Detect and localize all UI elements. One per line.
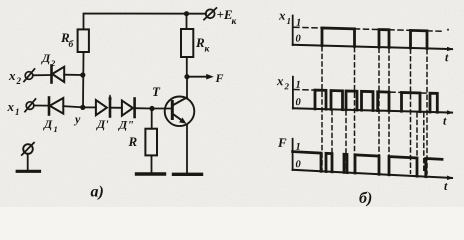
label Rк — [195, 35, 211, 55]
ground bar common — [17, 170, 39, 173]
svg-text:1: 1 — [15, 107, 20, 117]
ground bar under R — [137, 172, 165, 175]
label T — [152, 84, 161, 99]
svg-text:0: 0 — [296, 97, 302, 108]
svg-text:у: у — [73, 112, 81, 126]
wire diode Д2 to bus — [64, 74, 83, 76]
F axis vertical — [292, 139, 294, 170]
resistor Rб — [78, 29, 89, 52]
wire resistor R to ground — [151, 155, 153, 173]
svg-text:0: 0 — [296, 159, 302, 170]
svg-text:2: 2 — [16, 76, 22, 86]
label Д'' — [118, 118, 134, 132]
x2 waveform — [315, 90, 437, 112]
label x2 — [8, 68, 22, 86]
svg-text:F: F — [277, 135, 287, 151]
svg-text:x: x — [276, 73, 284, 88]
junction base node — [149, 106, 154, 111]
svg-text:1: 1 — [54, 124, 58, 134]
dashed guide lines x2 transitions — [332, 111, 424, 174]
svg-text:T: T — [152, 84, 161, 99]
diode Д'' — [122, 99, 135, 118]
wire diode Д1 to node У — [63, 106, 83, 107]
diode Д1 — [49, 98, 63, 115]
transistor T collector stroke — [172, 98, 187, 106]
junction x2 row — [80, 72, 85, 77]
x1 axis t — [293, 45, 452, 49]
transistor T emitter stroke — [172, 114, 183, 122]
wire common terminal to ground — [27, 154, 29, 170]
svg-text:Д: Д — [41, 51, 51, 65]
label F — [215, 71, 224, 85]
svg-text:R: R — [195, 35, 205, 50]
svg-text:x: x — [8, 68, 16, 83]
label a) — [91, 184, 104, 201]
label б) — [359, 190, 372, 207]
x2 axis t — [293, 108, 452, 112]
dashed guide lines x1 transitions — [322, 47, 427, 174]
svg-text:1: 1 — [296, 142, 301, 153]
x2 labels — [276, 73, 447, 128]
svg-text:1: 1 — [296, 18, 301, 29]
svg-text:Д': Д' — [96, 117, 109, 131]
svg-text:x: x — [278, 8, 286, 23]
svg-text:2: 2 — [50, 58, 56, 68]
label Д1 — [43, 117, 58, 134]
wire bus Rб to node У — [82, 52, 85, 108]
node У junction — [80, 105, 85, 110]
x1 level-1 dashed — [294, 27, 442, 31]
junction F node — [184, 74, 189, 79]
diode Д2 — [52, 66, 65, 83]
label x1 — [7, 99, 20, 117]
transistor T base bar — [171, 102, 174, 119]
wire x2 terminal to diode — [33, 74, 51, 76]
x2 axis vertical — [292, 77, 294, 109]
output arrow F — [187, 76, 208, 78]
terminal x2 — [25, 72, 33, 80]
wire Rк to F node — [186, 57, 188, 77]
svg-text:1: 1 — [296, 80, 301, 91]
terminal common (bottom left) — [23, 144, 33, 154]
resistor R — [145, 129, 157, 156]
svg-text:R: R — [128, 134, 138, 149]
terminal +Eк — [206, 9, 215, 18]
junction top rail — [184, 11, 189, 16]
wire base node to resistor R — [151, 109, 153, 129]
svg-text:1: 1 — [287, 16, 291, 26]
svg-text:б): б) — [359, 190, 372, 207]
wire top rail — [84, 14, 206, 30]
wire x1 terminal to diode — [34, 105, 48, 107]
wire Д'' to base node — [135, 107, 152, 109]
svg-text:а): а) — [91, 184, 104, 201]
label +Eк — [217, 7, 238, 27]
x1 axis vertical — [292, 15, 294, 45]
label У — [73, 112, 81, 126]
resistor Rк — [181, 29, 193, 57]
F waveform — [293, 152, 442, 178]
wire emitter down to ground — [186, 125, 188, 174]
wire Д' to Д'' — [110, 107, 122, 109]
label Rб — [60, 30, 75, 50]
wire base node to transistor — [152, 108, 172, 110]
svg-text:+E: +E — [217, 7, 233, 22]
svg-text:2: 2 — [284, 81, 290, 91]
svg-text:F: F — [215, 71, 224, 85]
svg-text:x: x — [7, 99, 15, 114]
transistor T circle — [165, 97, 195, 127]
svg-text:0: 0 — [296, 34, 302, 45]
terminal x1 — [26, 102, 34, 110]
wire node У to diode Д' — [83, 106, 96, 108]
svg-text:Д": Д" — [118, 118, 134, 132]
F axis t — [293, 170, 452, 178]
label Д2 — [41, 51, 56, 68]
diode Д' — [96, 95, 112, 117]
label R — [128, 134, 138, 149]
wire collector up to F node — [186, 77, 188, 98]
wire rail to Rк — [186, 14, 188, 29]
svg-text:Д: Д — [43, 117, 53, 131]
ground bar under emitter — [174, 173, 202, 176]
label Д' — [96, 117, 109, 131]
x2 level-1 dashed — [294, 90, 429, 94]
x1 waveform — [322, 28, 427, 48]
x1 labels — [278, 8, 449, 65]
F labels — [277, 135, 448, 193]
